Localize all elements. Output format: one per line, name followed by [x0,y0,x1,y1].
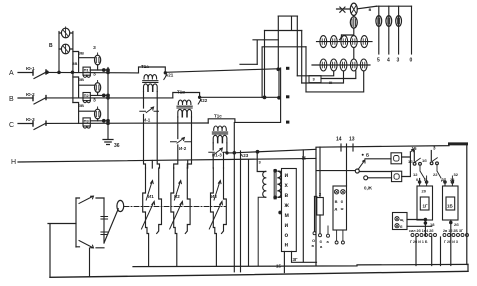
CT bumps under line B [83,101,90,103]
drop wire 5 [378,6,380,54]
contactor column K3 upper blade [214,181,221,201]
svg-text:А21: А21 [165,73,174,78]
svg-text:в: в [369,7,372,12]
svg-text:ЗВ: ЗВ [79,77,85,82]
svg-text:И1: И1 [148,194,154,199]
lower contact blade [79,241,94,249]
svg-text:м: м [285,213,290,219]
outer bottom wire [50,271,468,277]
transformer T1c core [212,132,227,134]
harness wire h12 [305,47,307,92]
relay KM2 outer [443,186,459,220]
transformer T1a secondary [144,84,158,91]
T1a secondary left wire with switch I-1 [144,91,153,168]
chain2 drop wire d1 [321,71,356,79]
wire tap A21 [164,75,167,80]
boxes to riser [402,152,411,177]
drop wire 3 [398,6,400,54]
contactor column K1 moving arrow [142,201,155,229]
lighting transformer left winding [263,171,266,197]
svg-text:2в 1б 2Б 3Г: 2в 1б 2Б 3Г [443,229,463,233]
contactor column K1 left finger [143,168,149,266]
T1a secondary right wire [157,91,159,168]
chain 2 ellipse 2 [330,59,337,71]
branch B riser [73,77,95,98]
drop group top wire [377,5,412,7]
svg-text:15: 15 [276,264,282,269]
linkage diagonal long [104,209,118,243]
linkage ellipse [117,200,124,211]
lighting transformer core [274,170,276,200]
harness wire h6 [301,31,303,84]
switch I-2 contact [171,141,192,143]
lamp HL2 [61,44,69,54]
switch I-1 contact [140,110,159,112]
relay KM2 bottom lead [450,220,452,266]
branch C output to bus [90,120,108,122]
pilot lamp L2 [350,17,357,28]
selector feed [317,170,356,172]
svg-text:в: в [285,193,289,199]
arrester PC ellipse [95,109,101,119]
right outer tie [467,264,469,271]
svg-text:х: х [285,183,289,189]
CT bumps under line C [83,126,90,128]
contactor column K2 upper blade [174,181,181,201]
lighting transformer feed [257,151,266,172]
phase tail bus [280,68,282,122]
relay KM1 coil [420,197,429,210]
chain2 drop wire d2 [306,71,364,92]
svg-text:П3: П3 [84,118,90,123]
svg-text:Ю-2: Ю-2 [26,92,35,97]
arrester PA ellipse [95,55,101,65]
pilot lamp L1 [350,3,357,15]
svg-text:З: З [93,72,96,77]
svg-text:И2: И2 [174,194,180,199]
contact pair b1 [413,162,416,165]
relay KM2 coil [446,197,455,210]
mid riser [302,150,304,262]
svg-text:а: а [320,244,323,249]
svg-text:З: З [93,45,96,50]
harness wire h11 [261,48,263,98]
control lever vertical right post [103,198,105,243]
drop wire 4 [388,6,390,54]
harness wire h4 [265,30,302,32]
links to contact column 3 [213,153,223,168]
fuse box P3 [83,118,90,126]
svg-text:П1: П1 [84,68,90,73]
svg-text:2: 2 [319,192,322,197]
transformer T1b jog bridge [173,93,200,98]
drop pin 3 [396,16,402,27]
svg-text:б: б [341,199,344,204]
bottom bus of columns [133,264,468,266]
node b tick [286,95,289,98]
svg-text:И-2: И-2 [179,146,187,151]
selector blade [358,160,365,169]
contact pair b2 [430,162,433,165]
phase line A [18,69,280,73]
box R1 [391,153,402,164]
phase line C [18,122,280,123]
lamp box [393,213,408,230]
chain 2 ellipse 4 [350,59,357,71]
svg-text:Ю-3: Ю-3 [26,117,35,122]
contactor column K3 left finger [211,168,217,266]
connector chain row 1 wire [317,41,373,43]
voltmeter lamp frame left wire [58,32,60,73]
chain 1 ellipse 4 [350,36,357,48]
wire A23 to panel [234,149,316,153]
svg-text:4: 4 [387,58,390,64]
svg-text:В: В [335,199,338,204]
panel fuse box [317,198,324,216]
neutral line N [18,158,316,162]
wire tap A22 [198,99,201,104]
mechanical linkage dash-dot [124,206,226,208]
upper contact blade [79,196,94,204]
transformer T1b primary [178,100,191,104]
label plate box [282,169,297,252]
panel left wire 1 [314,197,316,232]
panel border [316,144,467,265]
right winding taps [278,171,281,197]
tap zh [302,71,344,83]
branch A output to bus [90,69,108,71]
wire 13 tick [352,144,354,151]
harness wire h8 [256,40,258,64]
harness wire h3 [296,16,298,76]
svg-text:ЗВ: ЗВ [72,61,78,66]
svg-text:14: 14 [336,137,342,143]
svg-text:0: 0 [410,58,413,64]
left outer riser [49,224,51,277]
transformer T1a jog bridge [139,67,166,73]
lighting transformer right winding [278,171,281,197]
harness wire h7 [253,39,278,41]
terminal row 1 [411,234,437,237]
lamp box lamp 2 [395,224,399,228]
svg-text:ж: ж [340,206,344,211]
switch Ю-1 blade [34,72,46,78]
svg-text:ЗВ: ЗВ [79,103,85,108]
wire 14 tick [340,144,342,151]
svg-text:5: 5 [377,58,380,64]
tap z [297,71,333,76]
long drop from line C [233,123,235,272]
pilot lamp line [337,6,377,9]
wire to box R2 [359,172,391,178]
contact drop k2 [437,165,441,178]
svg-text:о: о [285,233,289,239]
panel lamp rect lamps [334,190,338,194]
svg-text:ЗВ: ЗВ [79,51,85,56]
curve to chain [340,35,342,40]
svg-text:3Г: 3Г [293,257,299,262]
transformer T1b core [177,106,192,108]
panel lamp rect feed [346,144,348,186]
harness wire h10 [262,46,306,48]
svg-text:22: 22 [433,172,438,177]
svg-text:а: а [327,239,330,244]
svg-text:С: С [9,122,14,129]
branch A riser [73,52,95,73]
svg-text:0,Ж: 0,Ж [364,186,373,191]
fuse box P1 [83,67,90,75]
branch B output to bus [90,94,108,96]
svg-text:3: 3 [397,58,400,64]
selector contact b [364,176,368,180]
svg-text:1б: 1б [408,159,413,164]
svg-text:Д: Д [441,177,444,182]
svg-text:Г 2б И 1 Б: Г 2б И 1 Б [410,240,428,244]
svg-text:щ: щ [400,217,404,222]
voltmeter lamp frame right wire [72,32,74,103]
svg-text:Ю-1: Ю-1 [26,66,35,71]
chain 2 ellipse 1 [320,59,327,71]
contact bars [101,217,108,235]
svg-text:Т1а: Т1а [141,64,149,69]
contactor column K2 left finger [171,168,177,266]
chain 1 ellipse 5 [361,36,368,48]
box R2 [392,171,402,181]
svg-text:Н: Н [302,156,306,162]
contactor column K1 upper blade [146,181,153,201]
svg-text:2б: 2б [454,222,459,227]
svg-text:36: 36 [114,143,120,149]
plate bottom lead [284,252,316,273]
svg-text:И3: И3 [211,194,217,199]
harness wire h13 [291,16,293,30]
svg-text:А22: А22 [199,98,208,103]
svg-text:И-1: И-1 [143,118,151,123]
harness wire h9 [240,63,257,65]
svg-text:з: з [313,77,316,82]
svg-text:15: 15 [412,146,418,151]
svg-text:н: н [285,243,289,249]
svg-text:Б: Б [366,153,370,158]
svg-text:П2: П2 [84,93,90,98]
wire 3 drop [430,151,432,161]
panel fuse wire [319,147,321,198]
chain link wire [353,48,355,59]
I1-3 output link [228,152,235,154]
arrester PB ellipse [95,83,101,93]
chain 2 ellipse 3 [340,59,347,71]
ground bus [107,68,109,140]
relay KM1 pins [420,183,427,186]
T1c secondary left wire [212,143,214,150]
svg-text:1Г: 1Г [423,204,429,209]
svg-text:и: и [285,173,289,179]
svg-text:Н: Н [11,159,16,166]
svg-text:в: в [312,243,315,248]
relay KM1 outer [417,186,433,220]
node c tick [286,121,289,124]
svg-text:А23: А23 [240,153,249,158]
transformer T1a primary [144,75,157,79]
control lever box left wire [48,223,76,225]
lamp HL1 [61,28,69,38]
contactor column K1 right finger [157,168,162,234]
chain 1 ellipse 2 [330,36,337,48]
svg-text:И1-3: И1-3 [212,153,222,158]
chain 1 ellipse 3 [341,36,348,48]
switch Ю-3 blade [34,123,46,129]
svg-text:и: и [285,223,289,229]
svg-text:А: А [9,70,14,77]
branch C riser [73,103,95,124]
transformer T1b secondary [178,109,192,116]
transformer T1c primary [214,126,227,130]
svg-text:В: В [9,96,14,103]
chain 1 ellipse 1 [320,36,327,48]
svg-text:сил 2б 1г 4 2б: сил 2б 1г 4 2б [409,229,434,233]
svg-text:б: б [400,224,403,229]
chain 2 ellipse 5 [360,59,367,71]
svg-text:Т1с: Т1с [214,114,222,119]
svg-text:1б: 1б [422,158,427,163]
svg-text:24: 24 [450,177,455,182]
lamp box lamp 1 [395,217,399,221]
fuse box P2 [83,93,90,101]
harness wire h1 [278,15,297,17]
transformer T1c jog bridge [208,119,235,123]
junction dots on line A [58,71,60,73]
terminal row 2 [443,234,469,237]
lamp branch wire [342,28,354,35]
control lever vertical left post [75,198,77,247]
transformer T1c secondary [213,135,227,143]
svg-text:18: 18 [430,222,435,227]
long drop 2 [240,151,242,272]
transformer T1a core [143,81,158,83]
drop wire 0 [411,6,413,54]
long drop 3 [248,160,250,266]
T1b secondary right wire [187,117,191,168]
phase line B [18,96,280,99]
svg-text:Б: Б [424,177,427,182]
ground symbol [103,140,113,145]
contactor column K3 right finger [222,168,227,234]
svg-text:1Б: 1Б [447,204,454,209]
svg-text:Т1в: Т1в [177,90,185,95]
contactor column K3 moving arrow [209,201,222,229]
harness wire h5 [264,31,266,98]
drop pin 5 [376,16,382,27]
border thick segment [450,142,467,145]
svg-text:ж: ж [284,203,290,209]
switch I1-3 contact [209,151,228,153]
relay KM1 bottom lead [424,220,426,236]
switch Ю-2 blade [34,98,46,104]
T1b secondary left wire with switch I-2 [174,117,188,168]
selector contact a [355,169,359,173]
harness wire h14 [278,69,280,97]
contactor column K2 right finger [185,168,190,234]
contactor column K2 moving arrow [170,201,183,229]
terminal risers [416,237,441,266]
svg-text:13: 13 [349,137,355,143]
panel lamp rect [333,186,347,230]
riser arrow [410,149,413,152]
svg-text:В: В [49,43,53,49]
harness wire h2 [277,16,279,69]
switch cross [340,7,345,12]
svg-text:Г 2б И 3: Г 2б И 3 [444,240,458,244]
wire to box R1 [365,158,391,160]
drop from lever box [89,248,91,276]
connector chain row 2 wire [312,64,370,66]
wire 15 drop [413,151,415,162]
CT bumps under line A [83,75,90,77]
T1c secondary right wire [226,143,228,153]
svg-text:20: 20 [422,189,427,194]
svg-text:З: З [93,98,96,103]
contact drop k1 [420,165,425,178]
drop pin 4 [386,16,392,27]
svg-text:д: д [335,206,338,211]
z-box [309,76,321,83]
relay KM2 pins [445,183,452,186]
lamp box leads [407,220,432,227]
svg-text:з: з [259,160,262,165]
node a tick [286,67,289,70]
